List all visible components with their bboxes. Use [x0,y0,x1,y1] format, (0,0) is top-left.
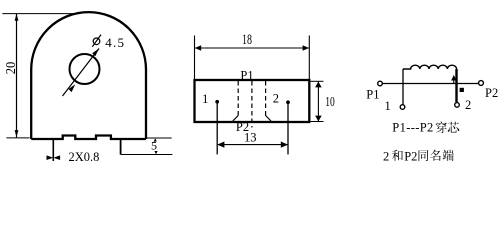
dimension 20 arrow down [15,130,19,137]
terminal P1 circle [378,81,383,86]
pin 1 dot [215,100,219,104]
svg-text:2X0.8: 2X0.8 [69,150,100,164]
svg-text:18: 18 [242,32,252,48]
dimension 18 arrow right [303,45,309,51]
polarity arrow secondary [452,76,456,83]
dimension 5 arrows [154,138,158,154]
secondary coil [403,65,457,69]
note text chuan xin [436,122,447,133]
front view body outline [31,12,146,139]
dimension 10 arrow down [315,116,322,122]
svg-text:2: 2 [273,92,279,106]
left pin [52,139,54,161]
hole diameter leader line [63,49,100,97]
dimension 20 line [16,14,18,137]
svg-text:2: 2 [465,98,471,112]
pin width arrows [47,155,61,160]
dimension 10 line [317,82,319,122]
svg-text:P1: P1 [240,69,253,83]
svg-text:P1: P1 [366,87,379,101]
svg-text:5: 5 [151,138,157,152]
hole flare right [266,116,271,122]
terminal 1 circle [400,105,405,110]
dimension 13 arrow right [281,142,288,148]
hidden hole line left [237,81,239,116]
svg-text:1: 1 [385,99,391,113]
note2 tong ming duan [419,150,429,161]
secondary right lead [455,69,457,102]
svg-text:13: 13 [244,130,257,145]
right pin [120,139,122,155]
svg-text:1: 1 [202,92,208,106]
dimension 20 extension line bottom [6,137,29,139]
svg-text:P2: P2 [404,149,417,163]
pin 2 lead [287,102,289,154]
diameter symbol [92,35,101,47]
dimension 18 extension right [308,36,310,80]
front view bottom edge with notches [31,136,146,140]
svg-text:P2: P2 [485,86,498,100]
polarity square primary [460,88,464,92]
dimension 13 arrow left [217,142,224,148]
dimension 10 extension top [311,80,324,82]
svg-text:2: 2 [383,149,389,163]
dimension 20 extension line top [2,13,80,15]
hidden hole line center [251,81,253,128]
top view rectangle [195,80,310,122]
svg-text:10: 10 [325,95,335,110]
terminal P2 circle [479,81,484,86]
hidden hole line right [265,81,267,116]
dimension 13 line [217,144,288,146]
dimension 18 extension left [194,36,196,80]
svg-text:4.5: 4.5 [105,35,125,50]
dimension 18 arrow left [195,45,201,51]
dimension 20 arrow up [15,14,19,21]
svg-text:P1---P2: P1---P2 [392,120,433,134]
hole circle [70,54,100,84]
leader arrow bottom at circle edge [69,84,76,92]
dimension 5 extension top [146,137,172,139]
dimension 10 arrow up [315,82,322,88]
hole flare left [233,116,238,122]
note2 he [392,150,403,161]
secondary left lead [402,69,404,105]
dimension 5 extension bottom [121,154,173,156]
terminal 2 circle [455,103,460,108]
leader arrow top [92,49,99,57]
schematic primary wire [383,83,479,85]
pin 1 lead [216,102,218,155]
svg-text:20: 20 [4,62,19,75]
pin 2 dot [286,100,290,104]
dimension 10 extension bottom [311,121,324,123]
dimension 18 line [195,47,309,49]
